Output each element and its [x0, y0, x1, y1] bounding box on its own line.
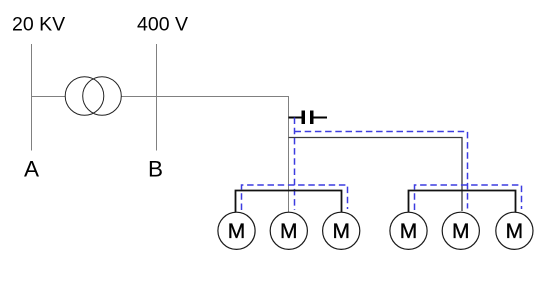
wire group 2 bus black	[409, 191, 516, 213]
wire main horizontal with feeder drop	[32, 97, 289, 213]
wire bus A vertical	[31, 44, 33, 151]
svg-text:M: M	[280, 220, 298, 243]
wire branch to group 2	[289, 138, 463, 212]
svg-text:M: M	[228, 220, 246, 243]
motor M3	[323, 212, 360, 249]
capacitor C1	[289, 111, 328, 125]
svg-text:B: B	[148, 157, 163, 182]
cable run group 2 bus blue	[415, 185, 522, 210]
motor M5	[442, 212, 479, 249]
svg-text:M: M	[506, 220, 524, 243]
svg-text:M: M	[332, 220, 350, 243]
motor M6	[496, 212, 533, 249]
cable run blue branch to group 2	[295, 132, 468, 209]
cable run group 1 bus blue	[242, 185, 348, 210]
motor M1	[218, 212, 255, 249]
motor M4	[390, 212, 427, 249]
svg-text:20 KV: 20 KV	[12, 14, 65, 36]
svg-text:M: M	[400, 220, 418, 243]
wire group 1 bus black	[236, 191, 342, 213]
svg-text:400 V: 400 V	[137, 14, 188, 36]
transformer T1	[65, 77, 121, 116]
cable run blue feeder	[294, 118, 296, 211]
svg-text:A: A	[24, 157, 39, 182]
wire bus B vertical	[156, 44, 158, 151]
svg-text:M: M	[452, 220, 470, 243]
motor M2	[270, 212, 307, 249]
